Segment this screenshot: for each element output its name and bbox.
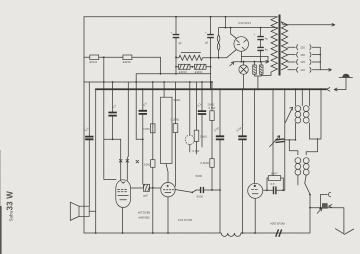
resistor EW16 — [123, 55, 132, 64]
svg-text:RGN354: RGN354 — [239, 21, 252, 25]
rectifier tube RGN354 — [231, 21, 252, 51]
svg-text:+: + — [205, 31, 207, 35]
resistor EW21 — [195, 64, 207, 74]
node junction x105 — [103, 56, 105, 58]
fuse block pair — [253, 62, 263, 90]
wire heater drop x128 — [127, 82, 128, 162]
wire output line — [310, 208, 344, 233]
svg-text:4μ: 4μ — [265, 36, 269, 40]
svg-text:0,5M: 0,5M — [143, 127, 150, 131]
mains plug symbol — [327, 74, 353, 91]
voltage selector taps — [288, 45, 332, 73]
label Saba 33W — [6, 191, 15, 222]
tube V3 output — [248, 89, 263, 233]
svg-text:Saba: Saba — [8, 210, 13, 221]
capacitor C5 0.1uF — [84, 82, 94, 206]
bottom return line — [84, 208, 310, 233]
coil L1 antenna — [295, 89, 321, 140]
resistor R1 10k — [144, 82, 155, 233]
lamp dial light — [239, 62, 248, 90]
resistor R0 0.5M — [143, 124, 155, 133]
tube V1 grid cap crosses — [119, 139, 128, 180]
wire secondary top tap to mains lead — [281, 22, 334, 26]
capacitor C1 4uF electrolytic — [171, 17, 183, 58]
wire heater tap line — [230, 56, 269, 66]
wire primary bottom — [261, 72, 271, 75]
capacitor C7 0.1 — [196, 82, 206, 147]
coil L2 secondary — [289, 138, 319, 185]
capacitor tone 5000pF — [196, 174, 221, 198]
svg-text:μμF: μμF — [143, 193, 148, 197]
resistor R5 20k — [208, 82, 216, 159]
capacitor grid series — [271, 182, 276, 194]
svg-text:0,5MΩ: 0,5MΩ — [201, 161, 210, 165]
choke bottom loops — [221, 233, 241, 236]
svg-text:EW16: EW16 — [123, 60, 131, 64]
svg-text:EW20: EW20 — [179, 70, 187, 74]
wire anode rail second — [219, 27, 278, 29]
svg-text:125: 125 — [300, 60, 305, 64]
capacitor C8 0.1 — [213, 89, 224, 233]
speaker — [70, 202, 95, 220]
wire filament return diagonal — [227, 50, 237, 58]
wire rectifier cathode drop — [240, 51, 242, 61]
svg-text:110: 110 — [300, 68, 305, 72]
svg-text:0,5W: 0,5W — [193, 149, 200, 153]
svg-text:DW7: DW7 — [271, 171, 278, 175]
svg-text:5000: 5000 — [196, 174, 203, 178]
antenna coupling arrow — [285, 107, 292, 123]
svg-text:REN1104: REN1104 — [138, 211, 151, 215]
wire choke feed x273 — [272, 89, 274, 175]
resistor R2 0.2M — [171, 82, 180, 186]
wire grid line x104 — [104, 57, 121, 179]
jack phone upper — [320, 192, 331, 208]
svg-text:4μ: 4μ — [265, 47, 269, 51]
edge mark left — [0, 150, 2, 210]
svg-text:0,5W: 0,5W — [209, 106, 216, 110]
potentiometer volume — [161, 82, 182, 164]
capacitor coupling hatched — [143, 184, 150, 197]
wire thin bus drop — [210, 82, 212, 89]
capacitor C9 0.1 — [235, 89, 246, 233]
svg-text:RENS1004: RENS1004 — [270, 222, 285, 226]
svg-text:50kΩ: 50kΩ — [174, 98, 182, 102]
svg-text:EW21: EW21 — [195, 70, 203, 74]
svg-text:10kΩ: 10kΩ — [200, 135, 208, 139]
wire top supply rail — [84, 16, 277, 18]
wire left rail vertical — [83, 17, 85, 233]
svg-text:5000: 5000 — [197, 194, 204, 198]
capacitor C4 0.1uF — [108, 82, 117, 139]
tube V2 triode — [161, 183, 175, 234]
capacitor C3 reservoir pair — [254, 28, 269, 62]
svg-text:0,5: 0,5 — [271, 182, 275, 186]
capacitor C6 0.1uF — [139, 89, 148, 184]
svg-text:REN904: REN904 — [138, 215, 149, 219]
switch wave change — [305, 183, 311, 209]
resistor R7 DW7 grid leak — [267, 171, 283, 190]
svg-text:220: 220 — [300, 45, 305, 49]
wire pot bottom to tube — [166, 164, 168, 183]
resistor EW11 — [90, 55, 99, 64]
resistor R3 10k — [194, 82, 207, 154]
wire grid line V3 — [263, 89, 285, 190]
resistor field coil choke with core bar — [176, 52, 227, 60]
node dots top rail — [175, 16, 177, 18]
tube socket dashed circle — [185, 82, 194, 152]
capacitor C2 4uF electrolytic — [204, 17, 214, 90]
svg-text:150: 150 — [300, 53, 305, 57]
resistor EW20 — [176, 64, 211, 74]
wire grid stopper link — [136, 138, 143, 140]
transformer mains core — [279, 15, 281, 76]
jack phone lower hatched — [317, 204, 332, 214]
wire link top rails — [225, 17, 227, 28]
svg-text:+: + — [254, 33, 256, 37]
transformer primary winding — [271, 17, 277, 72]
svg-text:10kΩ: 10kΩ — [144, 162, 152, 166]
capacitor bottom slanted — [276, 229, 282, 236]
wire screen feed y57 — [84, 57, 211, 139]
earth counterpoise — [335, 229, 353, 235]
svg-text:0,2MΩ: 0,2MΩ — [171, 118, 180, 122]
bus chassis ground thick — [96, 88, 327, 90]
coupling line V1 to V2 — [131, 187, 161, 189]
capacitor trimmer variable — [270, 136, 296, 147]
resistor R6 0.5M — [201, 159, 215, 190]
switch tone — [175, 190, 196, 194]
svg-text:REN1004: REN1004 — [177, 218, 192, 222]
svg-text:+: + — [171, 31, 173, 35]
transformer secondary winding — [281, 22, 287, 70]
tube V1 triode — [116, 180, 131, 233]
svg-text:EW11: EW11 — [90, 60, 98, 64]
tube V1 side cross marks — [136, 160, 139, 163]
heater winding vesica symbols — [217, 28, 220, 59]
svg-text:33 W: 33 W — [6, 191, 15, 211]
wire v176 screen node — [175, 57, 177, 74]
bus thin HT rail — [84, 81, 211, 83]
